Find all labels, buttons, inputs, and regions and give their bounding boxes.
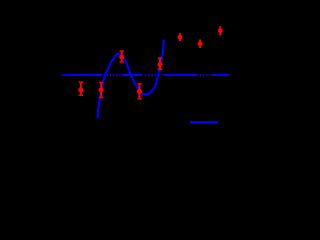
data point 1 with error bar — [78, 82, 83, 95]
data point 8 with error bar — [218, 26, 223, 35]
dashed zero line — [66, 74, 229, 76]
data point 5 with error bar — [157, 58, 162, 69]
data point 3 with error bar — [119, 51, 124, 62]
legend line — [190, 121, 218, 123]
data point 6 with error bar — [178, 33, 183, 41]
fit curve — [98, 41, 164, 118]
data point 2 with error bar — [99, 82, 104, 97]
data point 4 with error bar — [137, 84, 142, 99]
data point 7 with error bar — [198, 39, 203, 48]
